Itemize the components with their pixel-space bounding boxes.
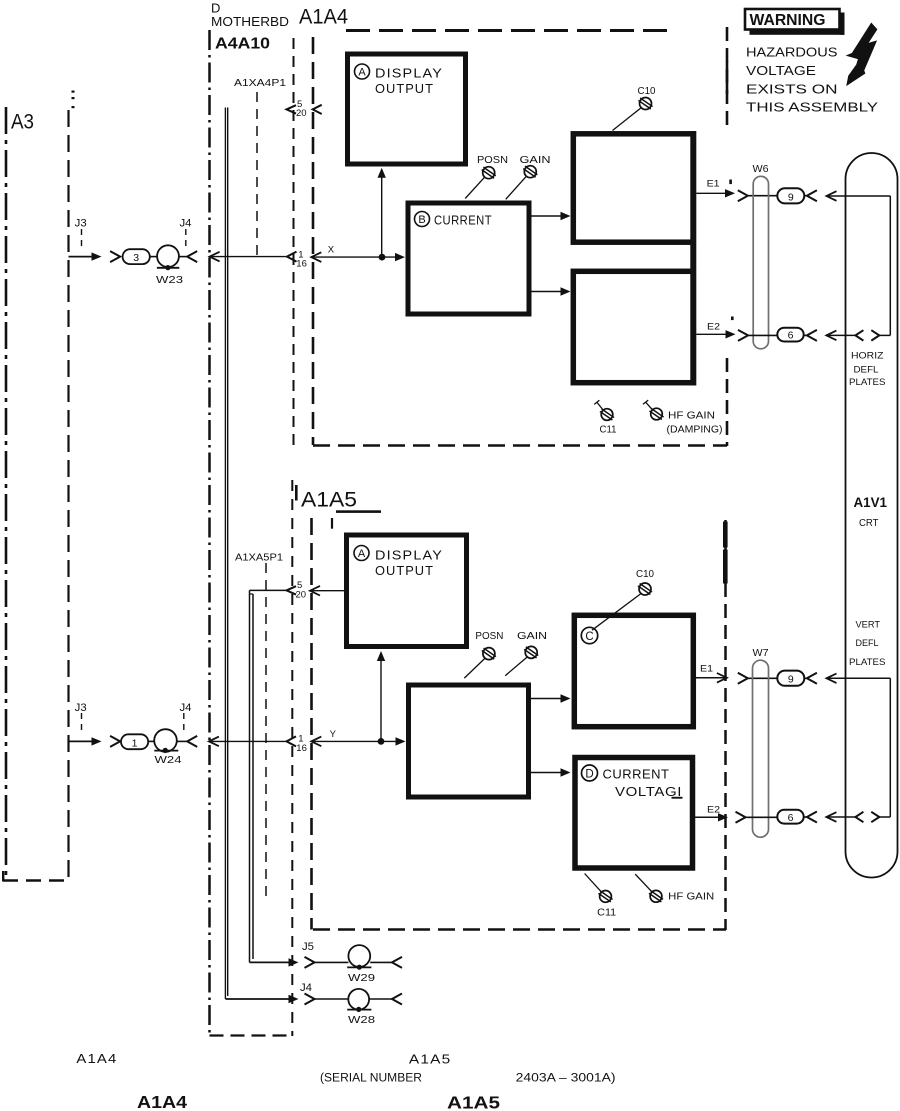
trimmer C10 (A1A5) [592,594,641,630]
continuation dots above A3 right edge [72,91,75,109]
CRT internal wire right side upper [889,196,891,335]
J5 arrow from motherboard [289,958,299,966]
fork at W6 pin 9 [738,190,778,201]
label A3 [11,111,34,134]
warning text HAZARDOUS VOLTAGE EXISTS ON THIS ASSEMBLY [746,45,878,115]
fork after W28 [392,994,402,1005]
pin labels 1 / 16 (A1A5) [296,734,307,754]
connector fork pins 5/20 (A1A5) [287,586,297,594]
svg-text:W24: W24 [155,754,182,766]
A1A4 boundary top edge [346,29,668,32]
svg-text:20: 20 [296,589,307,600]
fork at W7 pin 9 [738,673,778,684]
coax pin 3 pill [123,249,150,264]
motherboard wire X row with open arrow [210,252,287,262]
label J4 (bottom) with leader dash [300,982,312,994]
J4 arrow from motherboard [289,995,299,1003]
label W24 [155,754,182,766]
svg-text:D: D [211,1,220,16]
svg-text:J3: J3 [75,702,87,714]
trimmer HF GAIN (A1A5) [635,874,651,891]
trimmer POSN (A1A4) [483,167,495,179]
wire middle block to block D [531,768,571,776]
connector fork at W28 [305,994,349,1005]
svg-text:A1A5: A1A5 [301,489,357,512]
wire E1 with arrow [696,189,735,197]
label A1A5 (board name) with underline [296,485,381,529]
trimmer C10 (A1A4) [613,108,641,130]
pin 6 pill (W6) [777,328,803,342]
svg-text:GAIN: GAIN [520,154,551,166]
CRT horizontal wire lower with open arrow [826,331,855,341]
svg-text:DISPLAY: DISPLAY [375,67,443,81]
block B CURRENT (A1A4) [408,203,529,314]
junction dot on X wire [379,254,386,261]
svg-text:CRT: CRT [859,518,879,529]
common right edge bar [690,131,696,386]
fork after pin 6 pill (W7) [804,812,817,823]
svg-text:PLATES: PLATES [849,657,886,667]
label W29 [348,972,375,984]
connector fork after W23 [187,251,197,262]
svg-text:A1XA4P1: A1XA4P1 [234,78,287,89]
label J3 (row 2) with leader [75,702,87,735]
junction dot on Y wire [378,738,385,745]
WARNING box with drop shadow [745,9,845,35]
label E1 (A1A5) [700,664,713,675]
svg-text:D: D [585,768,593,780]
fork at W7 pin 6 [736,812,778,823]
svg-text:W28: W28 [348,1014,375,1026]
svg-text:W6: W6 [753,163,769,175]
trimmer POSN (A1A5) [483,648,495,660]
wire 5/20 into block A (A1A5) with open arrow [310,586,345,596]
label J3 (row 1) with leader [75,218,87,251]
connector fork after W24 [187,736,197,747]
svg-text:POSN: POSN [477,154,508,166]
svg-text:HAZARDOUS: HAZARDOUS [746,45,838,60]
coax pin 1 pill [121,734,148,749]
cable W23 (shielded) symbol [150,245,187,270]
svg-text:C11: C11 [597,907,616,918]
CRT vertical-section wire lower with open arrow [826,812,855,822]
svg-text:6: 6 [788,812,794,824]
svg-text:THIS ASSEMBLY: THIS ASSEMBLY [746,100,878,115]
A1A5 boundary left edge [310,518,313,930]
label W23 [156,274,183,286]
svg-text:VERT: VERT [856,620,881,630]
wire from A1A5 pins 5/20 (pair) down to J5 [250,590,289,962]
label HORIZ DEFL PLATES [849,351,886,388]
svg-text:CURRENT: CURRENT [603,768,670,782]
trimmer C11 (A1A5) [585,874,601,892]
label W6 [753,163,769,175]
pin labels 5 / 20 (A1A4) [296,99,307,119]
wire pair from A1A4 pins 5/20 down to J4 [225,108,288,1000]
label E1 (A1A4) with note tick [707,178,732,189]
svg-text:A: A [358,67,366,79]
cable W7 capsule [753,660,769,837]
connector forks pins 5/20 (A1A4) [287,105,322,114]
svg-text:POSN: POSN [475,630,503,642]
pin 6 pill (W7) [777,810,803,824]
A1A4 boundary bottom edge [313,444,727,447]
wire X into A1A4 with open arrow [311,252,397,262]
svg-text:A1A4: A1A4 [76,1051,117,1066]
wire Y into A1A5 with open arrow [311,737,397,747]
svg-text:A: A [358,548,366,560]
trimmer HF GAIN DAMPING (A1A4) [643,400,652,409]
block C (A1A5) [574,615,693,726]
svg-text:W29: W29 [348,972,375,984]
CRT internal wire right side lower [889,678,891,817]
pin 9 pill (W6) [777,188,804,203]
label J4 (row 2) with leader [180,702,192,735]
label J5 with leader dash [302,941,314,953]
fork at W6 pin 6 [738,330,777,341]
connector fork at W24 input [110,736,120,747]
branch wire up to Display Output block A [378,168,386,257]
label VERT DEFL PLATES [849,620,886,668]
svg-text:DISPLAY: DISPLAY [375,549,443,563]
motherboard boundary A4A10 (dash-dot) [210,30,293,1037]
svg-text:C10: C10 [638,86,656,97]
wire from J3 with arrow (row 2) [69,737,102,745]
connector fork pin 1/16 left (A1A5) [287,736,297,746]
svg-text:PLATES: PLATES [849,377,886,387]
label A1A4 (board name, top) [299,6,348,29]
svg-text:C11: C11 [600,425,617,436]
svg-text:VOLTAGE: VOLTAGE [746,63,816,78]
label MOTHERBD [211,15,289,29]
vert deflection plate forks inside CRT [855,812,890,822]
block A DISPLAY OUTPUT (A1A5) [347,535,467,647]
svg-text:Y: Y [330,729,337,740]
block D CURRENT VOLTAGE (A1A5) [575,758,693,869]
svg-text:E1: E1 [707,178,720,189]
svg-text:J4: J4 [180,218,192,230]
label A1V1 CRT [854,495,888,529]
svg-text:C: C [585,631,593,643]
svg-text:CURRENT: CURRENT [434,214,492,228]
wire middle block to block C [531,694,571,702]
label E2 (A1A4) with note tick [707,317,734,333]
cable W6 capsule [753,176,768,348]
wire B to upper deflection block [532,212,571,220]
svg-text:J4: J4 [180,702,192,714]
svg-text:X: X [328,244,335,255]
svg-text:A1A5: A1A5 [447,1093,500,1111]
svg-text:E1: E1 [700,664,713,675]
A1A5 boundary bottom edge [313,928,726,931]
pin labels 5 / 20 (A1A5) [296,580,307,600]
wire E2 with arrow [696,330,735,338]
assembly boundary A3 right edge (dashed) [67,110,69,880]
fork after pin 9 pill (W7) [804,673,817,684]
CRT A1V1 envelope [846,153,898,878]
fork after W29 [392,957,402,968]
wire E1 (A1A5) with arrow [694,673,727,683]
connector edge dashed line (A1A5) [291,480,293,1036]
label Y [330,729,337,740]
A1A5 boundary right edge [723,520,728,930]
connector A1XA5P1 (dashed) with label [235,553,283,898]
svg-text:J4: J4 [300,982,312,994]
pin labels 1 / 16 (A1A4) [296,249,307,269]
svg-text:(DAMPING): (DAMPING) [667,425,723,436]
svg-text:DEFL: DEFL [854,365,879,375]
svg-text:MOTHERBD: MOTHERBD [211,15,289,29]
svg-text:3: 3 [133,252,139,264]
label A4A10 [215,36,270,53]
label X [328,244,335,255]
svg-text:HORIZ: HORIZ [851,351,884,361]
cable W28 symbol [347,989,392,1012]
A1A4 boundary right edge [726,27,729,446]
CRT horizontal wire upper with open arrow [827,191,891,201]
svg-text:2403A – 3001A): 2403A – 3001A) [516,1073,616,1085]
connector edge dashed line (A1A4) [293,38,295,445]
svg-text:EXISTS ON: EXISTS ON [746,81,838,96]
arrow into middle block (A1A5) [396,737,406,745]
caption A1A4 bold [137,1092,187,1111]
CRT vertical-section wire upper with open arrow [827,674,891,684]
connector fork at W29 [305,957,349,968]
svg-text:HF GAIN: HF GAIN [668,411,715,422]
svg-text:16: 16 [296,743,307,754]
svg-text:C10: C10 [636,569,654,580]
svg-text:DEFL: DEFL [856,638,879,648]
fork after pin 6 pill [804,330,817,341]
pin 9 pill (W7) [777,671,804,686]
svg-text:GAIN: GAIN [517,630,547,642]
label W28 [348,1014,375,1026]
svg-text:(SERIAL NUMBER: (SERIAL NUMBER [320,1073,422,1085]
svg-text:1: 1 [132,737,138,749]
svg-text:WARNING: WARNING [750,12,826,29]
block A DISPLAY OUTPUT (A1A4) [348,54,466,164]
connector fork pin 1/16 left (A1A4) [287,252,297,262]
svg-text:HF GAIN: HF GAIN [668,892,714,903]
svg-text:J3: J3 [75,218,87,230]
svg-text:20: 20 [296,108,307,119]
assembly boundary A3 left edge [3,107,67,882]
label J4 (row 1) with leader [180,218,192,249]
label W7 [753,647,769,659]
caption A1A5 bold [447,1093,500,1111]
svg-text:A1V1: A1V1 [854,495,888,510]
svg-text:OUTPUT: OUTPUT [375,82,434,96]
branch wire up to Display Output block A (A1A5) [377,651,385,741]
svg-text:A1XA5P1: A1XA5P1 [235,553,283,564]
svg-text:B: B [418,214,425,226]
svg-text:9: 9 [788,674,794,686]
fork after pin 9 pill [804,190,817,201]
middle amplifier block (A1A5, unlabeled) [409,685,529,797]
wire E2 (A1A5) with arrow [694,813,728,821]
svg-text:A1A4: A1A4 [299,6,348,29]
trimmer C11 (A1A4) [594,400,602,409]
caption A1A4 (lower left) [76,1051,117,1066]
svg-text:E2: E2 [707,321,720,332]
A1A4 boundary left edge [312,37,315,445]
cable W29 symbol [347,945,392,970]
trimmer GAIN (A1A5) [525,646,537,658]
svg-text:OUTPUT: OUTPUT [375,564,434,578]
caption A1A5 serial number note [320,1052,616,1085]
trimmer GAIN (A1A4) [524,166,536,178]
wire from J3 with arrow [69,252,102,260]
connector A1XA4P1 (dashed) with label [234,78,287,255]
motherboard wire Y row with open arrow [209,737,287,747]
svg-text:W23: W23 [156,274,183,286]
svg-text:16: 16 [296,258,307,269]
connector fork at W23 input [110,251,120,262]
svg-text:J5: J5 [302,941,314,953]
lightning bolt symbol [847,23,877,85]
upper deflection block (A1A4) [573,134,693,242]
svg-text:A1A4: A1A4 [137,1092,187,1111]
svg-text:A3: A3 [11,111,34,134]
lower deflection block (A1A4) [573,271,693,382]
horiz deflection plate forks inside CRT [855,330,890,340]
svg-text:6: 6 [788,330,794,342]
svg-text:A4A10: A4A10 [215,36,270,53]
arrow into block B [395,253,405,261]
cable W24 (shielded) symbol [148,729,187,753]
wire B to lower deflection block [532,287,571,295]
svg-text:A1A5: A1A5 [409,1052,452,1067]
label E2 (A1A5) [707,805,720,816]
label D [211,1,220,16]
svg-text:9: 9 [788,191,794,203]
svg-text:W7: W7 [753,647,769,659]
